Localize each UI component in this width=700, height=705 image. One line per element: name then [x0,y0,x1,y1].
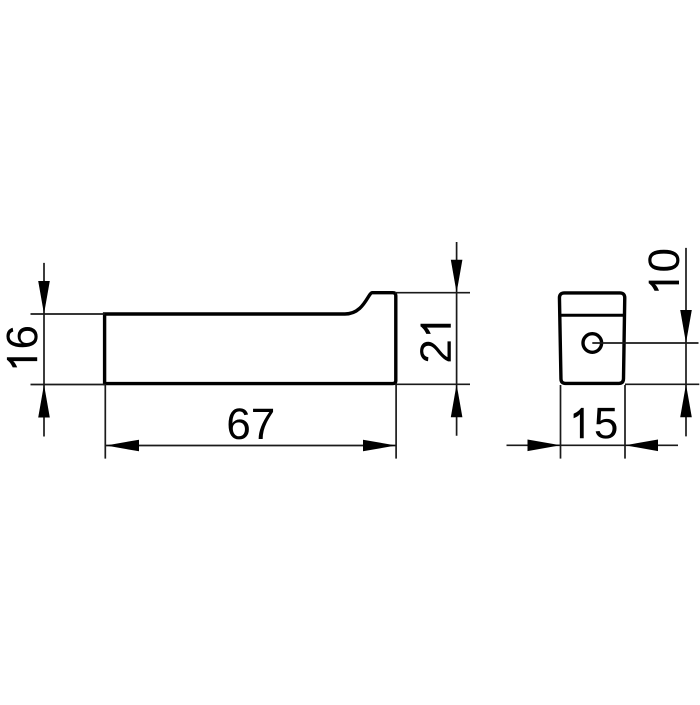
hole centerline [592,342,698,344]
dim 21 dimension line [456,242,458,436]
dim 67 arrow right [363,440,396,452]
dim 21 label [420,324,451,362]
dim 67 label [229,408,274,439]
dim 15 label [574,408,617,439]
dim 16 dimension line [43,263,45,437]
dim 21 arrow up [451,384,463,417]
dim 21 extension line bottom [395,383,470,385]
side view body outline [105,293,396,384]
dim 67 dimension line [106,445,396,447]
dim 16 label [6,327,37,367]
dim 16 arrow up [38,385,50,418]
dim 16 arrow down [38,281,50,314]
dim 15 dimension line [507,444,679,446]
dim 10 extension line bottom [625,383,699,385]
dim 10 arrow up [680,384,692,417]
dim 15 extension line right [624,385,626,459]
hole circle [583,334,602,353]
dim 15 extension line left [560,385,562,459]
dim 67 extension line left [104,384,106,459]
dim 15 arrow left-pointing [625,440,658,452]
dim 67 extension line right [395,385,397,459]
dim 15 arrow right-pointing [528,440,561,452]
dim 21 arrow down [451,260,463,293]
dim 16 extension line bottom [31,384,105,386]
end view body outline [559,293,624,384]
dim 21 extension line top [395,292,470,294]
dim 10 arrow down [680,310,692,343]
dim 10 dimension line [685,248,687,437]
dim 16 extension line top [31,313,105,315]
end view lip edge line [560,314,624,317]
dim 10 label [648,250,679,291]
dim 67 arrow left [106,440,139,452]
